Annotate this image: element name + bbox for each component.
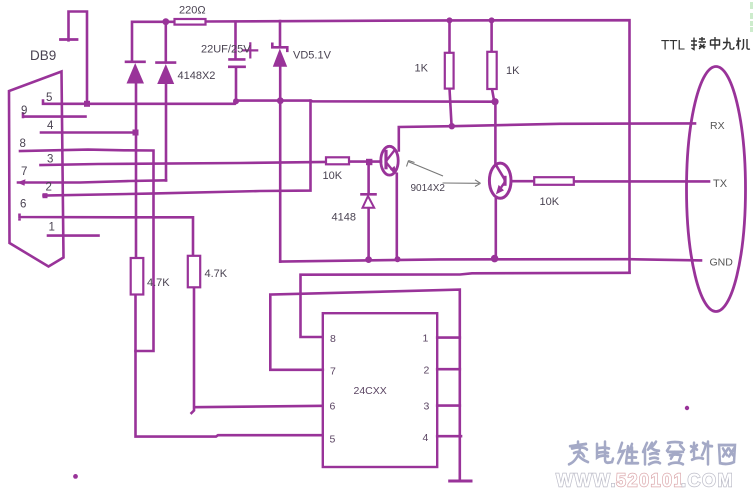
svg-text:10K: 10K bbox=[540, 196, 560, 208]
svg-text:9014X2: 9014X2 bbox=[411, 183, 446, 194]
svg-text:WWW.: WWW. bbox=[556, 471, 617, 490]
svg-text:8: 8 bbox=[330, 333, 336, 345]
svg-text:RX: RX bbox=[710, 120, 725, 132]
svg-text:6: 6 bbox=[20, 199, 26, 211]
svg-text:.COM: .COM bbox=[681, 471, 734, 490]
svg-text:3: 3 bbox=[47, 154, 53, 166]
svg-text:4148X2: 4148X2 bbox=[178, 70, 216, 82]
svg-text:4.7K: 4.7K bbox=[147, 277, 170, 289]
svg-text:4: 4 bbox=[423, 432, 429, 444]
svg-text:GND: GND bbox=[710, 257, 734, 269]
svg-text:220Ω: 220Ω bbox=[179, 5, 206, 17]
svg-text:22UF/25V: 22UF/25V bbox=[201, 44, 251, 56]
svg-text:24CXX: 24CXX bbox=[354, 385, 387, 397]
svg-text:1: 1 bbox=[423, 333, 429, 345]
svg-text:9: 9 bbox=[21, 105, 27, 117]
svg-text:4148: 4148 bbox=[332, 212, 356, 224]
svg-text:10K: 10K bbox=[323, 170, 343, 182]
svg-text:1K: 1K bbox=[415, 63, 429, 75]
svg-text:6: 6 bbox=[330, 401, 336, 413]
svg-text:DB9: DB9 bbox=[30, 48, 56, 63]
svg-text:4.7K: 4.7K bbox=[205, 268, 228, 280]
svg-text:4: 4 bbox=[47, 120, 54, 132]
svg-text:1K: 1K bbox=[506, 65, 520, 77]
svg-text:2: 2 bbox=[424, 365, 430, 377]
svg-text:2: 2 bbox=[46, 182, 52, 194]
svg-text:7: 7 bbox=[21, 166, 27, 178]
svg-text:TX: TX bbox=[713, 178, 728, 190]
svg-text:5: 5 bbox=[330, 434, 336, 446]
svg-text:VD5.1V: VD5.1V bbox=[293, 50, 332, 62]
svg-text:TTL: TTL bbox=[661, 38, 685, 53]
svg-text:7: 7 bbox=[330, 366, 336, 378]
svg-text:8: 8 bbox=[20, 138, 26, 150]
svg-text:3: 3 bbox=[424, 401, 430, 413]
svg-text:1: 1 bbox=[49, 222, 55, 234]
svg-text:5: 5 bbox=[46, 92, 52, 104]
svg-text:520101: 520101 bbox=[616, 471, 685, 490]
